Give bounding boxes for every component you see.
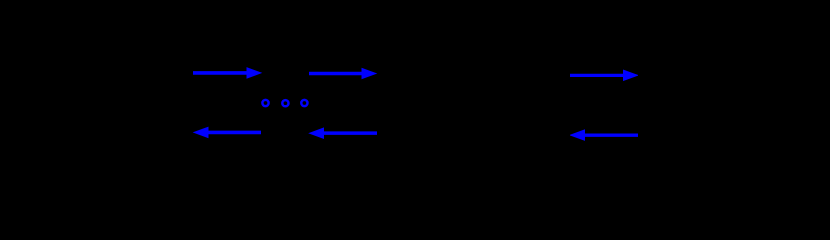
return current arrow I4 (bottom right, leftward) xyxy=(569,129,638,141)
ellipsis (line continues) xyxy=(262,100,307,106)
wire right-bottom xyxy=(638,132,700,135)
wire top segment 1 xyxy=(191,72,380,74)
load resistor RL xyxy=(695,84,705,132)
inductor L1 xyxy=(135,66,191,73)
wire top-left xyxy=(100,73,135,82)
wire bottom segment 2 xyxy=(377,134,570,136)
current arrow I1 (top left, rightward) xyxy=(193,67,262,79)
capacitor C1 xyxy=(458,73,482,134)
wire top segment 2 xyxy=(441,72,565,74)
return current arrow I5 (bottom middle, leftward) xyxy=(308,127,377,139)
voltage source V1 xyxy=(78,82,122,126)
inductor L2 xyxy=(385,66,441,73)
wire top-right xyxy=(638,75,700,84)
return current arrow I6 (bottom left, leftward) xyxy=(193,127,261,139)
capacitor C2 xyxy=(528,73,552,134)
wire bottom-left xyxy=(100,126,193,135)
current arrow I3 (top right, rightward) xyxy=(570,70,639,82)
current arrow I2 (top middle, rightward) xyxy=(309,68,377,80)
